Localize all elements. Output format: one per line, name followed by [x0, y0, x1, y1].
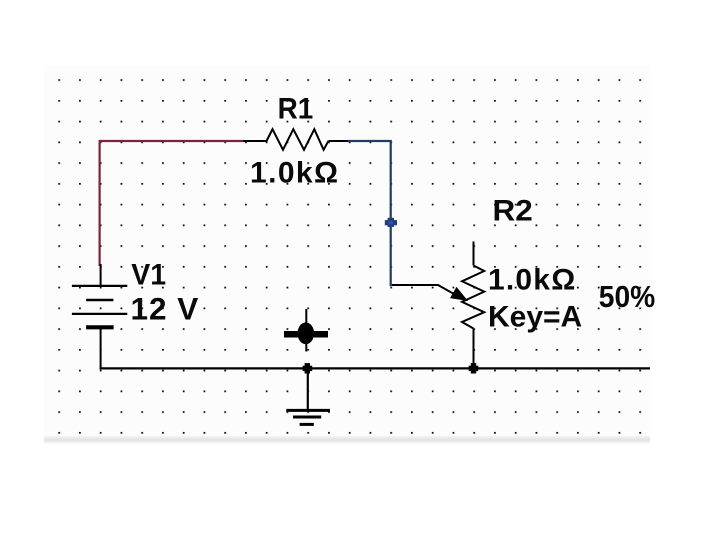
svg-text:50%: 50%: [599, 280, 655, 315]
svg-text:R2: R2: [493, 193, 533, 227]
svg-text:R1: R1: [278, 93, 314, 126]
svg-text:Key=A: Key=A: [488, 301, 582, 334]
svg-text:1.0kΩ: 1.0kΩ: [488, 264, 576, 297]
svg-text:V1: V1: [131, 259, 166, 292]
svg-text:1.0kΩ: 1.0kΩ: [250, 157, 339, 190]
svg-text:12 V: 12 V: [131, 290, 200, 326]
